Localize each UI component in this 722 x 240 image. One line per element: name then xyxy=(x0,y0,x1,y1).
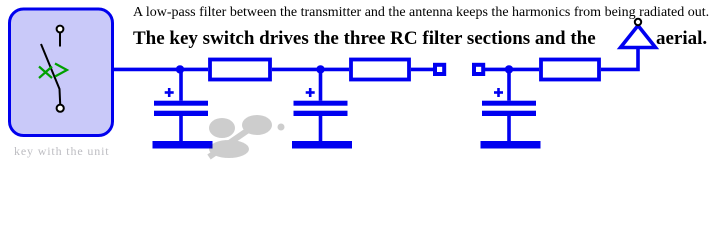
node junction 1 xyxy=(176,65,184,73)
capacitor C2 plus sign xyxy=(306,88,315,97)
faint key sketch between C1 and C2 xyxy=(209,115,285,158)
wire: R2 to terminal post 1 xyxy=(411,68,434,72)
resistor R2 xyxy=(351,60,409,80)
wire: terminal post 2 to R3 xyxy=(485,68,539,72)
terminal post 2 xyxy=(474,65,483,74)
svg-text:key with the unit: key with the unit xyxy=(14,144,109,158)
capacitor C3 plates xyxy=(482,101,536,106)
switch S1 lever xyxy=(41,44,60,104)
svg-text:aerial.: aerial. xyxy=(656,28,707,49)
node junction 2 xyxy=(316,65,324,73)
svg-text:The key switch drives the thre: The key switch drives the three RC filte… xyxy=(133,28,596,49)
source box (switch unit) xyxy=(10,9,113,136)
resistor R1 xyxy=(210,60,270,80)
node junction 3 xyxy=(505,65,513,73)
capacitor C2 lead xyxy=(319,69,323,100)
switch S1 green toggle arrows xyxy=(39,64,67,79)
capacitor C3 plus sign xyxy=(494,88,503,97)
capacitor C3 lead xyxy=(507,69,511,100)
wire: R3 to antenna riser xyxy=(601,47,638,69)
capacitor C1 plates xyxy=(154,101,208,106)
resistor R3 xyxy=(541,60,599,80)
wire: R1 to R2 xyxy=(272,68,349,72)
ground 3 xyxy=(481,141,541,149)
capacitor C2 bottom lead xyxy=(319,116,323,141)
capacitor C1 bottom lead xyxy=(179,116,183,141)
terminal post 1 xyxy=(435,65,444,74)
capacitor C1 lead xyxy=(179,69,183,100)
capacitor C3 bottom lead xyxy=(507,116,511,141)
ground 2 xyxy=(292,141,352,149)
capacitor C1 plus sign xyxy=(165,88,174,97)
capacitor C2 plates xyxy=(294,101,348,106)
wire: box to R1 xyxy=(113,68,208,72)
antenna A1 top circle xyxy=(635,19,641,25)
switch S1 top terminal circle xyxy=(57,26,64,33)
ground 1 xyxy=(153,141,213,149)
switch S1 bottom terminal circle xyxy=(57,105,64,112)
svg-text:A low-pass filter between the: A low-pass filter between the transmitte… xyxy=(133,5,709,20)
antenna A1 triangle xyxy=(621,26,656,48)
switch S1 top stem xyxy=(59,33,61,47)
